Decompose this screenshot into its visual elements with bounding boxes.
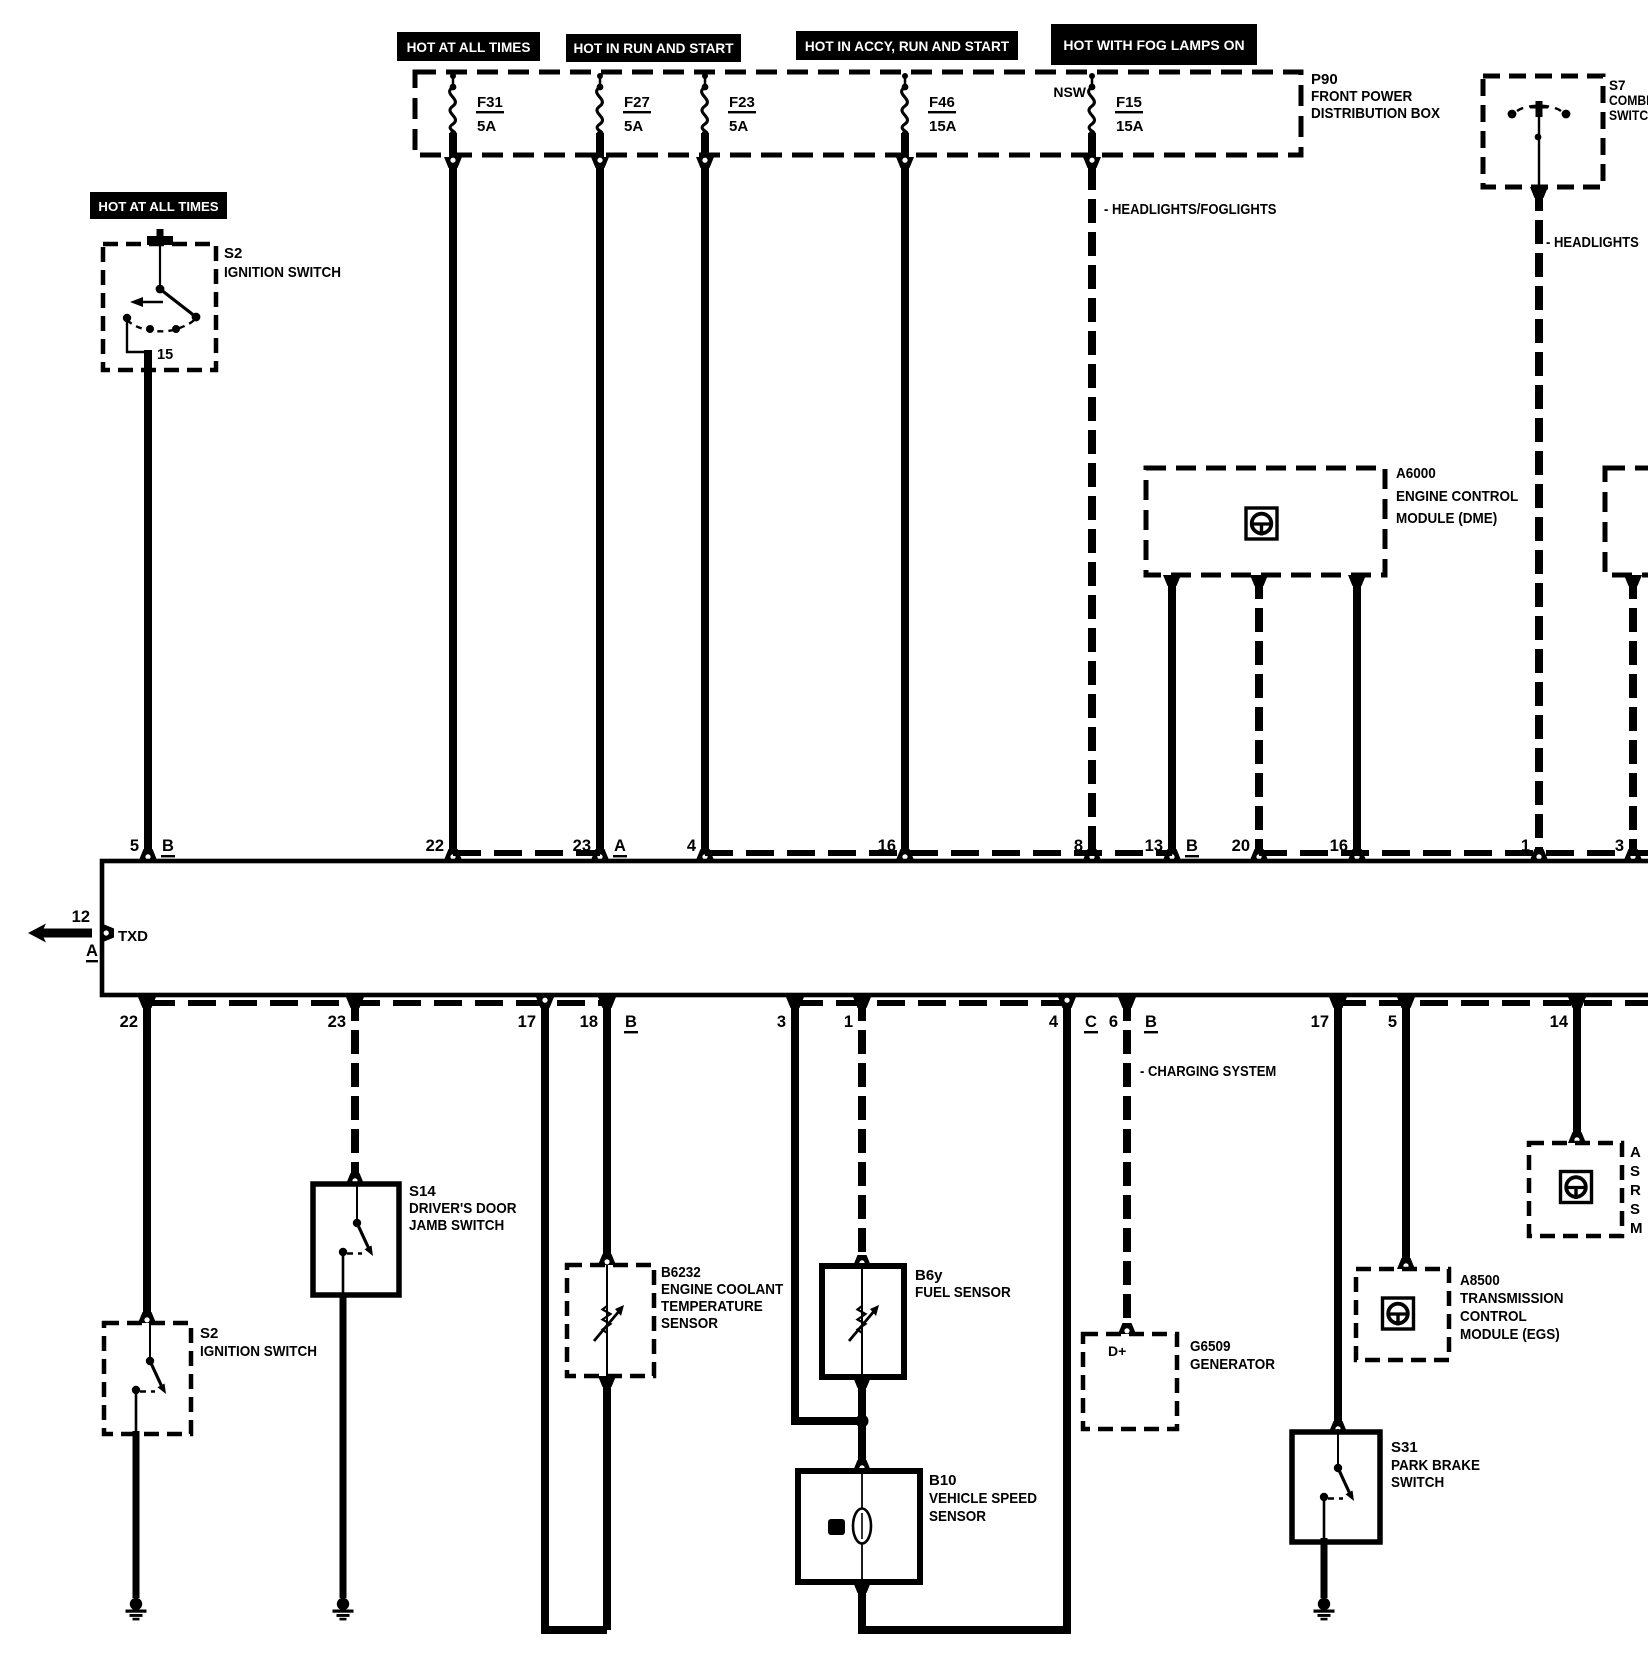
net label HEADLIGHTS/FOGLIGHTS [1104,202,1277,218]
wire A6000 to bus pin 16 [1348,575,1366,860]
wire A6000 to bus pin 13 [1163,575,1181,860]
svg-text:PARK BRAKE: PARK BRAKE [1391,1457,1480,1474]
wire bus pin 23 to S14 (dashed) [346,997,364,1184]
wire B6y to B10 [853,1377,871,1471]
sensor B6232 engine coolant temperature sensor [567,1264,783,1376]
svg-text:B10: B10 [929,1472,957,1489]
svg-text:HOT WITH FOG LAMPS ON: HOT WITH FOG LAMPS ON [1063,37,1244,53]
svg-text:4: 4 [1049,1013,1059,1031]
wire S2 pin 15 to bus pin 5 [139,350,157,860]
pin 22 (bus top) [426,837,444,855]
svg-text:F15: F15 [1116,94,1142,111]
svg-text:NSW: NSW [1053,84,1086,100]
svg-text:A6000: A6000 [1396,465,1436,482]
svg-text:A: A [86,942,98,960]
svg-text:13: 13 [1145,837,1163,855]
svg-text:TEMPERATURE: TEMPERATURE [661,1298,763,1315]
pin 8 (bus top) [1074,837,1083,855]
fuse F27 5A [597,73,651,137]
svg-text:- CHARGING SYSTEM: - CHARGING SYSTEM [1140,1064,1276,1080]
svg-text:JAMB SWITCH: JAMB SWITCH [409,1217,504,1234]
module (partial, right edge) [1605,468,1648,575]
svg-text:FRONT POWER: FRONT POWER [1311,88,1412,105]
svg-text:- HEADLIGHTS: - HEADLIGHTS [1546,235,1639,251]
svg-text:B6232: B6232 [661,1264,701,1281]
svg-text:23: 23 [573,837,591,855]
pin 16 (bus top) [1330,837,1348,855]
pin 13 B (bus top) [1145,837,1199,857]
switch S2 ignition switch (top) [103,229,341,370]
wire bus pin 3 to junction [786,997,862,1421]
svg-text:14: 14 [1550,1013,1569,1031]
wire fuse F31 to bus pin 22 [444,133,462,860]
fuse F31 5A [450,73,504,137]
svg-text:SWITCH: SWITCH [1609,108,1648,123]
fuse F23 5A [702,73,756,137]
svg-text:15A: 15A [1116,118,1144,135]
svg-text:HOT AT ALL TIMES: HOT AT ALL TIMES [407,40,531,55]
svg-text:IGNITION SWITCH: IGNITION SWITCH [224,264,341,281]
svg-text:3: 3 [777,1013,786,1031]
svg-text:5A: 5A [477,118,496,135]
svg-text:SENSOR: SENSOR [661,1315,718,1332]
switch S7 combination switch [1483,76,1648,187]
wire S14 to ground [340,1293,347,1598]
svg-text:16: 16 [1330,837,1348,855]
svg-text:F23: F23 [729,94,755,111]
generator G6509 terminal D+ [1083,1334,1275,1429]
wire B10 to bus pin 4 (loop) [853,997,1076,1630]
svg-text:17: 17 [518,1013,536,1031]
svg-text:4: 4 [687,837,697,855]
svg-text:B: B [625,1013,637,1031]
pin 1 (bus bottom) [844,1013,853,1031]
pin 23 A (bus top) [573,837,627,857]
power label HOT AT ALL TIMES (fuse F31) [397,32,540,61]
svg-text:G6509: G6509 [1190,1338,1231,1355]
fuse F15 15A [1089,73,1144,137]
svg-text:R: R [1630,1182,1641,1199]
svg-text:ENGINE COOLANT: ENGINE COOLANT [661,1281,783,1298]
node NSW [1053,84,1086,100]
wire S31 to ground [1321,1538,1328,1598]
svg-text:F46: F46 [929,94,955,111]
svg-text:GENERATOR: GENERATOR [1190,1356,1275,1373]
connector strip dashed (bus top edge) [453,850,1648,856]
svg-text:S7: S7 [1609,78,1626,93]
svg-text:16: 16 [878,837,896,855]
pin 5 (bus bottom) [1388,1013,1397,1031]
wire fuse F15 to bus pin 8 (dashed) [1083,133,1101,860]
svg-text:6: 6 [1109,1013,1118,1031]
pin 4 C (bus bottom) [1049,1013,1098,1033]
svg-text:SWITCH: SWITCH [1391,1474,1444,1491]
svg-text:CONTROL: CONTROL [1460,1308,1527,1325]
svg-text:HOT IN RUN AND START: HOT IN RUN AND START [573,41,734,56]
power label HOT AT ALL TIMES (left, for S2) [90,192,227,219]
svg-text:5: 5 [1388,1013,1397,1031]
svg-text:15: 15 [157,347,173,363]
power label HOT IN RUN AND START [566,34,741,62]
switch S31 park brake switch [1292,1429,1480,1542]
svg-text:1: 1 [844,1013,853,1031]
svg-text:3: 3 [1615,837,1624,855]
svg-text:17: 17 [1311,1013,1329,1031]
svg-text:5A: 5A [729,118,748,135]
wire S7 to bus pin 1 (dashed) [1530,187,1548,860]
pin 23 (bus bottom) [328,1013,346,1031]
svg-text:A: A [614,837,626,855]
wire fuse F46 to bus pin 16 [896,133,914,860]
svg-text:DRIVER'S DOOR: DRIVER'S DOOR [409,1200,517,1217]
pin 3 (bus bottom) [777,1013,786,1031]
wire bus pin 14 to right module [1568,997,1586,1143]
net label CHARGING SYSTEM [1140,1064,1276,1080]
connector TXD arrow pin 12 A [28,908,114,962]
svg-text:S: S [1630,1163,1640,1180]
svg-text:MODULE (DME): MODULE (DME) [1396,510,1497,527]
svg-text:SENSOR: SENSOR [929,1508,986,1525]
svg-text:M: M [1630,1220,1643,1237]
svg-text:5: 5 [130,837,139,855]
svg-text:15A: 15A [929,118,957,135]
svg-text:FUEL SENSOR: FUEL SENSOR [915,1284,1011,1301]
svg-text:TXD: TXD [118,928,148,945]
wire fuse F23 to bus pin 4 [696,133,714,860]
sensor B6y fuel sensor [822,1266,1011,1377]
pin 17 (bus bottom) [518,1013,536,1031]
pin 5 B (bus top) [130,837,175,857]
wire bus pin 6 B to G6509 (dashed) [1118,997,1136,1334]
pin 20 (bus top) [1232,837,1250,855]
wire S2 (bottom) to ground [133,1431,140,1598]
ground (S14) [333,1598,354,1621]
pin 17 (bus bottom) [1311,1013,1329,1031]
svg-text:23: 23 [328,1013,346,1031]
svg-text:B: B [1186,837,1198,855]
wire fuse F27 to bus pin 23 [591,133,609,860]
svg-text:ENGINE CONTROL: ENGINE CONTROL [1396,488,1518,505]
svg-text:- HEADLIGHTS/FOGLIGHTS: - HEADLIGHTS/FOGLIGHTS [1104,202,1277,218]
ground (S31) [1314,1598,1335,1621]
svg-text:TRANSMISSION: TRANSMISSION [1460,1290,1564,1307]
svg-text:F31: F31 [477,94,503,111]
svg-text:S31: S31 [1391,1439,1418,1456]
wire bus pin 22 to S2 (bottom) [138,997,156,1323]
svg-text:MODULE (EGS): MODULE (EGS) [1460,1326,1560,1343]
ground (S2 bottom) [126,1598,147,1621]
svg-text:22: 22 [426,837,444,855]
pin 14 (bus bottom) [1550,1013,1569,1031]
svg-text:22: 22 [120,1013,138,1031]
svg-text:A: A [1630,1144,1641,1161]
svg-text:S: S [1630,1201,1640,1218]
svg-text:8: 8 [1074,837,1083,855]
pin 3 (bus top) [1615,837,1624,855]
svg-text:IGNITION SWITCH: IGNITION SWITCH [200,1343,317,1360]
connector strip dashed (bus bottom edge) [147,1000,1648,1006]
svg-text:S14: S14 [409,1183,436,1200]
wire B6232 to bus pin 17 (loop) [536,997,616,1630]
svg-text:B6y: B6y [915,1267,943,1284]
svg-text:20: 20 [1232,837,1250,855]
fuse box P90 FRONT POWER DISTRIBUTION BOX [415,71,1440,155]
power label HOT WITH FOG LAMPS ON [1051,24,1257,65]
svg-text:1: 1 [1521,837,1530,855]
module A6000 engine control module (DME) [1146,465,1518,575]
svg-text:B: B [1145,1013,1157,1031]
pin 1 (bus top) [1521,837,1530,855]
svg-text:VEHICLE SPEED: VEHICLE SPEED [929,1490,1037,1507]
power label HOT IN ACCY, RUN AND START [796,31,1018,60]
module A8500 transmission control module (EGS) [1356,1269,1564,1360]
wire right module to bus pin 3 (dashed) [1624,575,1642,860]
svg-text:P90: P90 [1311,71,1338,88]
wire bus pin 17 to S31 [1329,997,1347,1432]
svg-text:S2: S2 [200,1325,218,1342]
pin 22 (bus bottom) [120,1013,138,1031]
svg-text:12: 12 [72,908,90,926]
sensor B10 vehicle speed sensor [798,1471,1037,1582]
bus module box [102,861,1648,995]
wire bus pin 18 to B6232 [598,997,616,1265]
fuse F46 15A [902,73,957,137]
svg-text:COMBINATION: COMBINATION [1609,93,1648,108]
switch S2 ignition switch (bottom) [104,1322,317,1434]
pin 6 B (bus bottom) [1109,1013,1158,1033]
pin 4 (bus top) [687,837,697,855]
svg-text:5A: 5A [624,118,643,135]
svg-text:D+: D+ [1108,1343,1126,1359]
svg-text:18: 18 [580,1013,598,1031]
svg-text:DISTRIBUTION BOX: DISTRIBUTION BOX [1311,105,1440,122]
pin 16 (bus top) [878,837,896,855]
net label HEADLIGHTS [1546,235,1639,251]
svg-text:C: C [1085,1013,1097,1031]
pin 18 B (bus bottom) [580,1013,638,1033]
wire bus pin 5 to A8500 [1397,997,1415,1269]
svg-text:HOT AT ALL TIMES: HOT AT ALL TIMES [98,199,218,214]
svg-text:HOT IN ACCY, RUN AND START: HOT IN ACCY, RUN AND START [805,39,1010,54]
wire A6000 to bus pin 20 (dashed) [1250,575,1268,860]
svg-text:A8500: A8500 [1460,1272,1500,1289]
svg-text:B: B [162,837,174,855]
switch S14 driver&#39;s door jamb switch [313,1183,517,1295]
module (partial, right edge bottom) [1529,1143,1643,1237]
svg-text:F27: F27 [624,94,650,111]
svg-text:S2: S2 [224,245,242,262]
wire bus pin 1 to B6y (dashed) [853,997,871,1266]
junction node [856,1415,869,1428]
